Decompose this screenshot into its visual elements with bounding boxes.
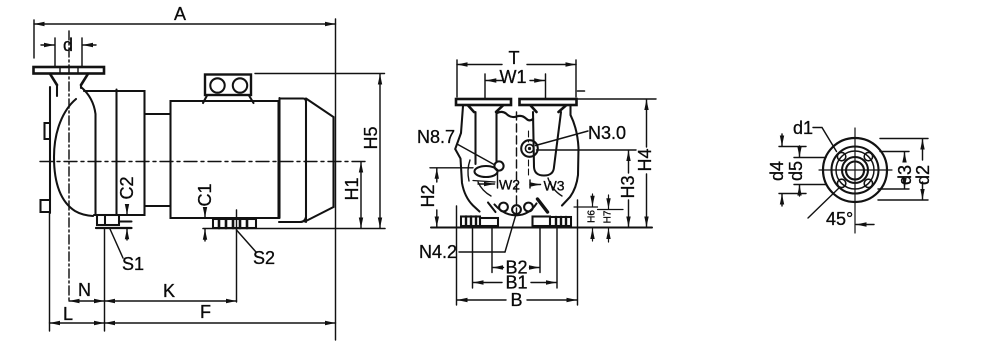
bearing bracket xyxy=(145,114,170,206)
dimension H4 xyxy=(576,99,656,227)
volute casing outline xyxy=(49,87,51,213)
gauge boss N3.0 xyxy=(521,131,538,175)
suction pipe centerline xyxy=(68,31,70,302)
dimension K xyxy=(105,300,237,302)
dimension B xyxy=(457,200,578,305)
45 degree construction line xyxy=(808,187,840,218)
body top humps xyxy=(497,112,533,121)
bolt hole top-right xyxy=(864,152,872,160)
svg-text:S1: S1 xyxy=(122,254,144,274)
svg-text:45°: 45° xyxy=(826,209,853,229)
dimension H5 : total height xyxy=(255,74,385,229)
svg-text:d4: d4 xyxy=(767,161,787,181)
svg-text:S2: S2 xyxy=(253,248,275,268)
svg-text:d2: d2 xyxy=(913,165,933,185)
leader S1 : pump foot bolt xyxy=(105,228,124,331)
right port flange xyxy=(520,99,577,112)
dimension T : flange span xyxy=(457,60,576,97)
dimension W1 : port centers xyxy=(485,74,546,98)
dimension H1 : shaft height xyxy=(360,162,362,228)
svg-text:d: d xyxy=(63,35,73,55)
dimension H2 xyxy=(430,168,473,227)
left foot hatched xyxy=(461,217,498,227)
svg-text:A: A xyxy=(174,4,186,24)
right foot hatched xyxy=(533,217,572,227)
drain boss bottom left xyxy=(41,200,51,212)
svg-text:W2: W2 xyxy=(499,177,520,193)
svg-text:F: F xyxy=(200,302,211,322)
suction pipe xyxy=(57,85,81,96)
bolt hole top-left xyxy=(837,152,845,160)
motor end bell xyxy=(279,98,306,222)
base line xyxy=(431,227,652,229)
svg-text:d5: d5 xyxy=(786,161,806,181)
svg-text:B: B xyxy=(510,290,522,310)
lifting lug plate xyxy=(203,75,254,104)
dimension d3 xyxy=(878,152,909,190)
dimension B1 xyxy=(473,228,558,289)
motor foot (hatched) xyxy=(203,219,385,229)
leader S2 : motor foot bolt xyxy=(237,210,257,302)
right port pipe tapered xyxy=(533,112,561,176)
svg-text:N3.0: N3.0 xyxy=(588,123,626,143)
bore d1 xyxy=(846,162,864,180)
body outline right side xyxy=(562,106,579,206)
svg-text:H5: H5 xyxy=(361,126,381,149)
shaft centerline xyxy=(40,161,365,163)
pump foot xyxy=(96,215,132,228)
flange centerline vertical xyxy=(854,128,856,233)
svg-text:H3: H3 xyxy=(618,175,638,198)
left port pipe xyxy=(476,112,497,164)
casing joint line xyxy=(115,90,117,216)
body outline left side xyxy=(455,106,479,212)
dimension d5 xyxy=(794,146,826,196)
left port flange xyxy=(456,99,511,112)
svg-text:W3: W3 xyxy=(544,178,565,194)
svg-text:N4.2: N4.2 xyxy=(419,242,457,262)
left foot gusset xyxy=(488,203,496,213)
45 degree arrow xyxy=(856,224,874,226)
bolt hole bottom-left xyxy=(837,179,845,187)
drain holes bottom xyxy=(499,203,508,212)
dimension d : suction port bore xyxy=(41,38,96,66)
dimension H3 xyxy=(537,150,637,227)
svg-text:C1: C1 xyxy=(195,183,215,206)
fan cover xyxy=(305,99,334,222)
pilot circle xyxy=(842,157,868,183)
left drain boss (ellipse) xyxy=(475,166,498,177)
svg-text:N8.7: N8.7 xyxy=(417,127,455,147)
svg-text:T: T xyxy=(509,48,520,68)
svg-text:H6: H6 xyxy=(587,210,598,223)
flange centerline horizontal xyxy=(819,169,892,171)
dimension L xyxy=(50,213,105,331)
left gauge circle N8.7 xyxy=(494,161,503,170)
dimension C1 : motor foot pad xyxy=(204,208,206,241)
lug boss upper left xyxy=(45,123,51,139)
inner casting arcs xyxy=(468,160,470,181)
dimension W2 xyxy=(478,170,498,188)
motor body xyxy=(171,101,279,218)
svg-text:W1: W1 xyxy=(500,67,527,87)
flange outer circle xyxy=(823,138,887,202)
hub circle xyxy=(832,147,879,194)
svg-text:K: K xyxy=(163,281,175,301)
dimension H6 xyxy=(574,194,598,241)
right foot gusset xyxy=(538,199,548,212)
pump centerline vertical xyxy=(516,112,518,212)
dimension H7 xyxy=(598,195,624,242)
svg-text:H1: H1 xyxy=(342,177,362,200)
dimension W3 xyxy=(530,180,541,188)
dimension F xyxy=(105,19,336,340)
svg-text:d3: d3 xyxy=(895,165,915,185)
flange back tick xyxy=(578,90,585,92)
dimension d4 xyxy=(779,134,806,206)
svg-text:H2: H2 xyxy=(418,184,438,207)
dimension N xyxy=(69,300,105,302)
svg-text:H7: H7 xyxy=(603,210,614,223)
bolt hole bottom-right xyxy=(864,179,872,187)
dimension d2 xyxy=(878,139,928,201)
svg-text:L: L xyxy=(63,304,73,324)
bolt circle xyxy=(836,151,874,189)
dimension C2 : pump foot pad xyxy=(126,206,128,240)
svg-text:C2: C2 xyxy=(117,176,137,199)
svg-text:H4: H4 xyxy=(635,148,655,171)
body bottom arc xyxy=(495,204,537,216)
label N3.0 with leader xyxy=(536,131,589,146)
svg-text:N: N xyxy=(78,280,91,300)
svg-text:d1: d1 xyxy=(793,118,813,138)
dimension A : overall length, top xyxy=(34,20,336,58)
casing body xyxy=(84,91,145,215)
dimension B2 xyxy=(492,228,540,273)
suction flange xyxy=(34,67,105,85)
